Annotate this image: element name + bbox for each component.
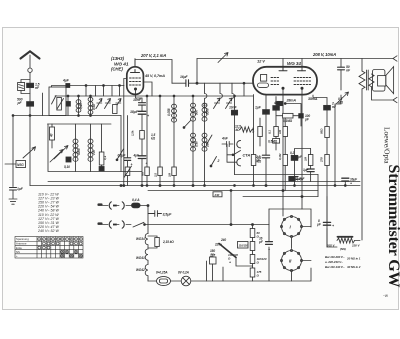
selector switch lever [219, 244, 236, 258]
fuse F2 oval [148, 280, 157, 282]
connector K2 [372, 87, 398, 103]
svg-text:~W: ~W [383, 294, 388, 298]
svg-text:16μF: 16μF [180, 75, 189, 79]
capacitor C22 16uF top [342, 178, 349, 181]
speaker SP1 [373, 70, 385, 92]
wire x335 column [335, 95, 341, 186]
rectifier tube I [282, 217, 302, 237]
voltage list [37, 193, 59, 234]
svg-text:208 V, 10mA: 208 V, 10mA [312, 52, 336, 57]
svg-text:+: + [229, 261, 231, 265]
svg-text:0,1M: 0,1M [278, 153, 282, 160]
heater chain x148 [147, 206, 149, 234]
svg-text:3,5μF: 3,5μF [163, 213, 173, 217]
capacitor C26 16uF [186, 80, 189, 87]
svg-text:Bei 110-200 V~: Bei 110-200 V~ [325, 255, 345, 259]
fuse F1 0,4A [132, 203, 141, 208]
tube V1 right pin [143, 82, 152, 96]
wire vertical x121 [120, 116, 122, 172]
capacitor C14b [277, 101, 283, 105]
capacitor C27 4uF [65, 83, 70, 88]
wire cathode column x142 [141, 98, 143, 186]
svg-text:0,2: 0,2 [290, 151, 294, 155]
svg-text:Ms: Ms [140, 172, 144, 176]
resistor R5 [99, 152, 104, 165]
trimmer T5 [226, 98, 233, 109]
resistor R11 1,2k [251, 155, 256, 166]
switch S5 [211, 157, 217, 167]
svg-text:0,1MΩ: 0,1MΩ [283, 119, 293, 123]
resistor R25 [125, 167, 130, 176]
svg-text:Spannung: Spannung [16, 237, 29, 241]
capacitor C2 500pF [27, 102, 34, 107]
wire x244 drop [243, 83, 245, 96]
wire antenna stem [29, 55, 31, 68]
svg-text:3500: 3500 [206, 108, 210, 115]
capacitor C6 [99, 167, 104, 171]
capacitor C3 1uF [10, 188, 17, 191]
resistor R14 0,5M [273, 139, 280, 144]
svg-text:20 NS in 1: 20 NS in 1 [346, 257, 361, 261]
capacitor C18 1uF [307, 169, 314, 172]
capacitor C15 100pF [285, 104, 301, 127]
capacitor C17 2uF [291, 177, 298, 180]
svg-text:270: 270 [320, 157, 324, 163]
svg-text:kΩ: kΩ [151, 137, 156, 141]
svg-text:(13H3): (13H3) [111, 56, 124, 61]
small box R23 [210, 257, 217, 264]
wire horizontal y124 [48, 123, 112, 125]
svg-text:220 V: 220 V [351, 244, 360, 248]
coil L3 column x174 [173, 96, 175, 186]
svg-text:205 V: 205 V [326, 244, 335, 248]
capacitor C10 10nF [231, 110, 237, 115]
svg-text:207 V, 2,1 mA: 207 V, 2,1 mA [140, 53, 166, 58]
PSU right column [327, 197, 337, 248]
capacitor C8 18uF [138, 111, 145, 114]
svg-text:1,5k: 1,5k [131, 130, 135, 136]
svg-text:5000: 5000 [77, 148, 81, 155]
selector chain x252.5 [252, 225, 254, 282]
svg-text:0,95: 0,95 [79, 103, 83, 109]
switch slash S8 [124, 166, 132, 178]
capacitor C14 4uF [273, 106, 280, 111]
output transformer TR1 [361, 59, 363, 72]
junction dots on bus [146, 185, 148, 187]
tube V2 anode pin [283, 59, 302, 71]
svg-text:45 V, 0,7mA: 45 V, 0,7mA [144, 74, 165, 78]
capacitor C28 0,5uF [124, 158, 130, 161]
svg-text:WG34: WG34 [136, 237, 145, 241]
svg-text:0,1: 0,1 [267, 130, 271, 134]
switch S4 [207, 135, 212, 144]
switch S3 [184, 120, 191, 128]
tube V2 WG34 [253, 67, 317, 95]
mains wire 2 [98, 224, 131, 226]
ground GND [9, 199, 17, 204]
svg-text:900: 900 [195, 110, 199, 115]
capacitor C16 0,2uF [291, 155, 298, 160]
svg-text:5,10: 5,10 [64, 165, 70, 169]
svg-text:0,5MΩ: 0,5MΩ [268, 140, 278, 144]
potentiometer P2 0,3M [337, 92, 349, 104]
speaker feed cap C20 50nF [338, 67, 345, 70]
resistor R15 0,1M horizontal [283, 113, 293, 118]
svg-text:30 NS in 2: 30 NS in 2 [347, 265, 361, 269]
svg-text:95Ω: 95Ω [320, 128, 324, 134]
svg-text:1,4: 1,4 [203, 103, 207, 107]
coil L1b [90, 96, 92, 116]
svg-text:Bei 110-130 V~: Bei 110-130 V~ [325, 265, 345, 269]
svg-text:220+: 220+ [214, 243, 222, 247]
trimmer arrows double [54, 146, 68, 160]
wire drops from y85.5 [86, 86, 120, 97]
capacitor C5 [66, 157, 71, 162]
potentiometer arrow P1 [23, 147, 36, 158]
wire horizontal y115 [13, 115, 121, 117]
resistor R13 [274, 127, 279, 137]
coil L2b [90, 124, 92, 172]
svg-text:0,58: 0,58 [92, 104, 96, 110]
resistor R24 NS tapped [337, 238, 355, 243]
capacitor C25 8uF [323, 222, 330, 225]
resistor R4 40 [50, 127, 55, 140]
wire bus y85.5 [52, 86, 125, 88]
resistor R21 240 [213, 192, 222, 197]
resistor R7 [145, 167, 150, 176]
svg-text:1,5k: 1,5k [251, 127, 255, 133]
svg-text:4nF: 4nF [221, 137, 229, 141]
svg-text:(NS): (NS) [340, 247, 346, 251]
resistor R3 [113, 105, 117, 114]
resistor R19 95 [325, 127, 330, 138]
row marks [43, 242, 46, 245]
svg-text:WG41: WG41 [136, 256, 145, 260]
svg-text:+: + [131, 163, 133, 167]
resistor R18 1M [308, 155, 313, 166]
svg-text:u. 220-240 V~: u. 220-240 V~ [325, 260, 343, 264]
rectifier box [269, 209, 311, 227]
switch S1 [57, 99, 64, 110]
resistor R6 1,5k [140, 131, 145, 140]
svg-text:240: 240 [214, 193, 220, 197]
resistor R12 [258, 127, 263, 137]
wire top line y58.5 [197, 58, 393, 60]
svg-text:0,058: 0,058 [167, 108, 171, 116]
trimmer T3 [115, 99, 121, 109]
switch S2 [117, 149, 124, 160]
svg-text:WG42: WG42 [136, 268, 145, 272]
svg-text:NSG: NSG [17, 163, 24, 167]
svg-text:700: 700 [92, 150, 96, 155]
svg-text:CTA: CTA [243, 153, 251, 158]
svg-text:0,90: 0,90 [195, 141, 199, 147]
capacitor C19 2nF [324, 105, 331, 110]
svg-text:2: 2 [217, 159, 220, 163]
svg-text:2,5: 2,5 [153, 173, 157, 178]
resistor NSG [16, 161, 26, 168]
svg-text:4μF: 4μF [62, 79, 70, 83]
wire left branch [12, 116, 14, 187]
svg-text:1M: 1M [167, 172, 171, 177]
capacitor C13 2,5uF [262, 155, 269, 158]
svg-text:(CHE): (CHE) [111, 67, 123, 72]
svg-text:WG 34: WG 34 [287, 61, 301, 66]
svg-text:0,1: 0,1 [103, 156, 107, 160]
coil can box [42, 93, 44, 116]
resistor R2 [57, 98, 62, 111]
svg-text:28mA: 28mA [286, 99, 297, 103]
spark gap bracket [21, 80, 30, 94]
svg-text:240: 240 [220, 238, 226, 242]
svg-text:35mA: 35mA [308, 97, 318, 101]
coil L1a [78, 96, 80, 116]
svg-text:1M: 1M [278, 129, 282, 134]
coil L2a [75, 124, 77, 172]
capacitor C23 3,5uF [148, 211, 162, 217]
resistor R8 [158, 167, 163, 176]
svg-text:260: 260 [206, 142, 210, 148]
svg-text:Strommeister GW: Strommeister GW [385, 165, 400, 288]
capacitor C12 1uF [263, 110, 270, 115]
chassis bus lines [235, 174, 319, 176]
capacitor C21 2uF on bus [289, 176, 295, 181]
capacitor C4 [66, 102, 70, 107]
svg-text:0,4 A: 0,4 A [132, 198, 140, 202]
coil L4a L4b column x193 [192, 96, 194, 186]
header circles [38, 238, 41, 241]
resistor R16 [283, 127, 288, 137]
wire x197 drop [196, 59, 198, 84]
resistor R17 [283, 155, 288, 166]
svg-text:8V 0,2A: 8V 0,2A [178, 271, 190, 275]
svg-text:4μF: 4μF [273, 101, 281, 105]
svg-text:110/120: 110/120 [239, 244, 249, 248]
connector K1 [393, 56, 397, 61]
tube V1 WG41 [127, 67, 144, 95]
svg-text:0,5μF: 0,5μF [118, 154, 127, 158]
resistor R20 270 [325, 155, 330, 166]
trimmer T4 [214, 98, 221, 109]
svg-text:1M: 1M [303, 156, 307, 161]
switch arrow on top line [218, 53, 228, 63]
switch S7 mains [133, 222, 144, 227]
lamp LP1 [171, 280, 182, 282]
svg-text:8+0,25A: 8+0,25A [156, 271, 168, 275]
capacitor C24 16uF [266, 242, 273, 245]
trimmer T2 [105, 99, 111, 109]
svg-text:240 V= 52 W: 240 V= 52 W [37, 229, 59, 233]
switch S6 CTA [227, 151, 241, 156]
svg-text:240 V~ 58 W: 240 V~ 58 W [37, 209, 59, 213]
tube V1 left pin [124, 79, 127, 186]
resistor R22 2,15k [148, 236, 157, 248]
antenna A1 [21, 51, 40, 58]
capacitor C9 5uF [138, 156, 145, 159]
svg-text:kΩ: kΩ [236, 128, 241, 132]
wire hop drops to trimmers [220, 83, 234, 98]
svg-text:2,15 kΩ: 2,15 kΩ [162, 240, 174, 244]
tube V2 bottom pins [282, 89, 284, 216]
junction [147, 205, 149, 207]
svg-text:MΩ: MΩ [338, 100, 344, 104]
capacitor C7 10nF [139, 103, 146, 105]
resistor R10 zigzag 12,5k [240, 127, 253, 132]
connection table [15, 237, 83, 259]
capacitor C1 1,5nF [27, 83, 34, 87]
svg-text:+: + [350, 182, 352, 186]
wire anode feed y83 [172, 82, 253, 84]
trimmer T1 [96, 99, 102, 109]
svg-text:Loewe/Opta: Loewe/Opta [383, 127, 392, 164]
wire links bottom [48, 124, 142, 172]
wire top bus y96 [55, 95, 253, 97]
svg-text:10nF: 10nF [229, 106, 238, 110]
coil L5a L5b column x207.5 [205, 83, 207, 185]
rectifier tube II [282, 251, 302, 271]
wire vertical x127.5 [127, 116, 129, 186]
svg-text:40: 40 [50, 133, 54, 138]
resistor R9 [172, 167, 177, 176]
mains wire 1 [98, 205, 148, 207]
svg-text:10nF: 10nF [133, 98, 142, 102]
jack J2 [237, 159, 241, 166]
svg-text:18μF: 18μF [130, 110, 139, 114]
svg-text:12 V: 12 V [257, 59, 265, 64]
capacitor C11 4nF jack [222, 141, 233, 146]
svg-text:+: + [146, 162, 148, 166]
